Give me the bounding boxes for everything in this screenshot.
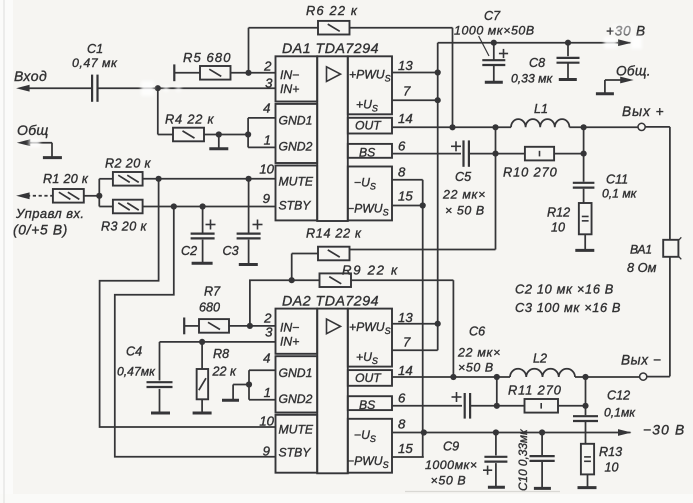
- svg-text:R11 270: R11 270: [508, 383, 562, 398]
- svg-text:R3 20 к: R3 20 к: [101, 220, 148, 234]
- svg-text:1000мк×: 1000мк×: [425, 458, 478, 472]
- svg-text:+PWUS: +PWUS: [349, 320, 391, 336]
- svg-text:10: 10: [605, 461, 619, 475]
- svg-text:22 к: 22 к: [212, 365, 238, 379]
- svg-text:9: 9: [263, 444, 271, 459]
- svg-text:R2 20 к: R2 20 к: [105, 157, 152, 171]
- svg-text:Вых −: Вых −: [621, 353, 662, 368]
- svg-text:ВА1: ВА1: [630, 243, 652, 257]
- svg-text:7: 7: [403, 335, 411, 350]
- svg-text:10: 10: [259, 162, 274, 177]
- svg-text:Общ.: Общ.: [616, 64, 651, 79]
- svg-text:10: 10: [551, 221, 565, 235]
- svg-text:Общ: Общ: [17, 122, 49, 138]
- svg-text:13: 13: [398, 58, 413, 73]
- svg-text:4: 4: [263, 101, 270, 116]
- svg-text:Вых +: Вых +: [622, 104, 665, 119]
- svg-text:C2 10 мк ×16 В: C2 10 мк ×16 В: [515, 282, 614, 297]
- svg-text:C1: C1: [87, 42, 103, 56]
- svg-text:R9 22 к: R9 22 к: [342, 263, 399, 278]
- svg-text:4: 4: [263, 351, 270, 366]
- svg-text:8 Ом: 8 Ом: [627, 260, 657, 275]
- svg-text:C11: C11: [606, 173, 628, 187]
- svg-text:C2: C2: [181, 244, 197, 258]
- svg-text:L2: L2: [533, 352, 547, 366]
- svg-text:2: 2: [263, 311, 272, 326]
- svg-text:R12: R12: [547, 206, 570, 220]
- svg-text:GND2: GND2: [279, 140, 313, 154]
- svg-text:10: 10: [259, 414, 274, 429]
- svg-text:0,33 мк: 0,33 мк: [511, 72, 553, 86]
- svg-text:8: 8: [398, 417, 406, 432]
- svg-text:BS: BS: [359, 398, 375, 412]
- svg-text:(0/+5 В): (0/+5 В): [13, 223, 68, 238]
- svg-text:L1: L1: [534, 102, 548, 116]
- svg-text:14: 14: [398, 363, 413, 378]
- svg-text:R7: R7: [204, 285, 221, 299]
- svg-text:+PWUS: +PWUS: [349, 68, 391, 84]
- svg-text:2: 2: [263, 59, 272, 74]
- svg-text:IN−: IN−: [280, 320, 299, 334]
- svg-text:0,47 мк: 0,47 мк: [72, 56, 118, 70]
- svg-text:IN+: IN+: [280, 334, 299, 348]
- svg-text:22 мк×: 22 мк×: [442, 188, 486, 202]
- svg-text:1000 мк×50В: 1000 мк×50В: [454, 24, 535, 38]
- svg-text:0,47мк: 0,47мк: [117, 365, 156, 379]
- svg-text:8: 8: [398, 165, 406, 180]
- svg-text:R5 680: R5 680: [183, 50, 232, 65]
- svg-text:C6: C6: [469, 325, 485, 339]
- svg-text:680: 680: [199, 301, 220, 315]
- svg-text:0,1мк: 0,1мк: [604, 406, 636, 420]
- svg-text:R8: R8: [213, 347, 229, 361]
- svg-text:6: 6: [398, 391, 406, 406]
- svg-text:7: 7: [403, 84, 411, 99]
- svg-text:−PWUS: −PWUS: [347, 454, 389, 470]
- svg-text:GND2: GND2: [279, 392, 313, 406]
- svg-text:R4 22 к: R4 22 к: [165, 112, 215, 127]
- svg-text:С10 0,33мк: С10 0,33мк: [516, 429, 530, 491]
- svg-text:3: 3: [265, 76, 273, 91]
- svg-text:1: 1: [264, 133, 271, 148]
- svg-text:C3: C3: [223, 244, 239, 258]
- svg-text:−PWUS: −PWUS: [347, 202, 389, 218]
- svg-text:C12: C12: [607, 389, 630, 403]
- svg-text:MUTE: MUTE: [279, 423, 314, 437]
- svg-text:IN−: IN−: [280, 68, 299, 82]
- svg-text:14: 14: [398, 111, 413, 126]
- svg-text:Вход: Вход: [14, 68, 47, 84]
- svg-text:15: 15: [398, 189, 413, 204]
- svg-text:R10 270: R10 270: [503, 165, 558, 180]
- svg-text:C9: C9: [443, 440, 459, 454]
- svg-text:GND1: GND1: [279, 114, 313, 128]
- svg-text:R14 22 к: R14 22 к: [306, 227, 362, 241]
- svg-text:C8: C8: [529, 56, 545, 70]
- svg-text:OUT: OUT: [355, 371, 382, 385]
- svg-text:R6 22 к: R6 22 к: [306, 3, 358, 18]
- svg-text:3: 3: [265, 325, 273, 340]
- svg-text:6: 6: [398, 139, 406, 154]
- svg-text:×50 В: ×50 В: [431, 474, 467, 488]
- svg-text:MUTE: MUTE: [279, 175, 314, 189]
- svg-text:13: 13: [398, 310, 413, 325]
- svg-text:BS: BS: [359, 146, 375, 160]
- svg-text:C4: C4: [126, 345, 142, 359]
- svg-text:STBY: STBY: [279, 446, 312, 460]
- svg-text:9: 9: [263, 191, 271, 206]
- svg-text:−30 В: −30 В: [643, 423, 685, 438]
- svg-text:15: 15: [398, 441, 413, 456]
- svg-text:Управл вх.: Управл вх.: [15, 206, 84, 221]
- svg-text:DA2 TDA7294: DA2 TDA7294: [282, 293, 379, 309]
- svg-text:C5: C5: [455, 170, 472, 184]
- svg-text:0,1 мк: 0,1 мк: [602, 187, 638, 201]
- svg-text:IN+: IN+: [280, 82, 299, 96]
- svg-text:GND1: GND1: [279, 366, 313, 380]
- svg-text:R13: R13: [599, 445, 622, 459]
- svg-text:22 мк×: 22 мк×: [457, 346, 501, 360]
- svg-text:C7: C7: [484, 9, 501, 23]
- svg-text:×50 В: ×50 В: [458, 361, 494, 375]
- svg-text:R1 20 к: R1 20 к: [43, 172, 89, 186]
- svg-text:STBY: STBY: [279, 199, 312, 213]
- svg-text:× 50 В: × 50 В: [445, 204, 485, 218]
- svg-text:1: 1: [264, 385, 271, 400]
- svg-text:DA1 TDA7294: DA1 TDA7294: [282, 41, 379, 57]
- svg-text:OUT: OUT: [355, 119, 382, 133]
- svg-text:C3 100 мк ×16 В: C3 100 мк ×16 В: [515, 300, 621, 315]
